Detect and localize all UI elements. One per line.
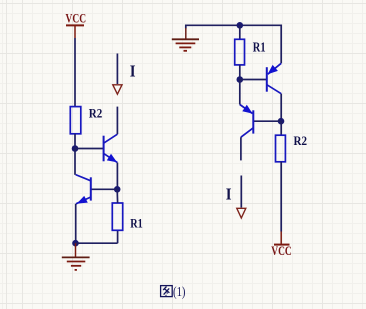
resistor R2 (left) body bbox=[70, 107, 81, 134]
power port VCC (left) bar symbol bbox=[66, 25, 84, 38]
transistor Q3 collector bbox=[267, 85, 281, 94]
wire node to Q3 base bbox=[240, 79, 267, 81]
transistor Q3 emitter arrow (PNP) bbox=[268, 65, 278, 74]
wire node to R1 top bbox=[116, 189, 118, 203]
junction node (240,25) bbox=[237, 22, 244, 29]
junction node (240,79) bbox=[237, 76, 244, 83]
wire node to R1 top (right) bbox=[239, 25, 241, 39]
junction node (75,148) bbox=[72, 145, 79, 152]
transistor Q1 base bar bbox=[103, 136, 105, 162]
wire node to R2 top (right) bbox=[280, 121, 282, 135]
resistor R1 (right) body bbox=[235, 39, 245, 65]
resistor R2 (right) body bbox=[276, 135, 286, 162]
svg-text:VCC: VCC bbox=[271, 243, 292, 258]
transistor Q1 emitter bbox=[104, 153, 118, 162]
wire Q1 emitter down to node bbox=[116, 163, 118, 190]
transistor Q4 collector bbox=[241, 128, 253, 137]
wire VCC to R2 top bbox=[74, 38, 76, 107]
wire Q1 collector up bbox=[116, 107, 118, 135]
wire node to Q4 base bbox=[253, 120, 281, 122]
transistor Q1 collector bbox=[104, 134, 118, 143]
transistor Q3 emitter bbox=[268, 63, 281, 74]
current arrow I (left) line bbox=[116, 54, 118, 85]
ground symbol (right) bbox=[172, 28, 199, 51]
junction node (117,189) bbox=[114, 186, 121, 193]
wire Q4 collector down bbox=[240, 137, 242, 160]
transistor Q2 collector bbox=[76, 175, 91, 181]
wire Q3 collector down bbox=[280, 94, 282, 122]
wire R2 bottom to node bbox=[74, 134, 76, 149]
current arrow I (right) open head bbox=[237, 208, 246, 218]
transistor Q4 emitter bbox=[240, 105, 253, 114]
svg-text:R2: R2 bbox=[294, 133, 308, 148]
transistor Q4 emitter arrow (PNP) bbox=[242, 105, 252, 114]
junction node (281,121) bbox=[278, 118, 285, 125]
current arrow I (right) line bbox=[240, 176, 242, 208]
wire R2 bottom to VCC bbox=[280, 162, 282, 232]
resistor R1 (left) body bbox=[112, 203, 122, 230]
svg-text:I: I bbox=[226, 184, 232, 203]
power port VCC (right) bar symbol bbox=[274, 232, 290, 245]
svg-text:I: I bbox=[130, 61, 136, 80]
wire R1 bottom to node bbox=[239, 65, 241, 80]
caption glyph 图 bbox=[161, 286, 173, 297]
transistor Q3 base bar bbox=[266, 67, 268, 92]
wire left rail to Q4 emitter bbox=[239, 80, 241, 105]
transistor Q1 emitter arrow bbox=[107, 154, 117, 163]
svg-text:VCC: VCC bbox=[66, 10, 87, 25]
current arrow I (left) open head bbox=[113, 85, 122, 94]
transistor Q2 emitter bbox=[76, 197, 91, 204]
wire R1 bottom bbox=[117, 230, 119, 243]
wire node to Q1 base bbox=[75, 148, 104, 150]
svg-text:R1: R1 bbox=[130, 215, 143, 230]
wire ground node to R1 bottom bbox=[76, 242, 118, 244]
wire Q2 emitter down to ground node bbox=[75, 204, 77, 243]
svg-text:R2: R2 bbox=[89, 106, 103, 121]
ground symbol (left) bbox=[62, 243, 90, 270]
transistor Q2 emitter arrow bbox=[77, 196, 88, 204]
junction node (75,243) bbox=[72, 240, 79, 247]
svg-text:R1: R1 bbox=[253, 41, 266, 56]
wire node to Q2 base bbox=[91, 188, 117, 190]
svg-text:(1): (1) bbox=[173, 284, 186, 299]
wire top rail (right circuit) bbox=[186, 25, 281, 63]
transistor Q4 base bar bbox=[252, 110, 254, 133]
transistor Q2 base bar bbox=[90, 177, 92, 200]
wire left rail node to Q2 collector bbox=[74, 149, 76, 175]
